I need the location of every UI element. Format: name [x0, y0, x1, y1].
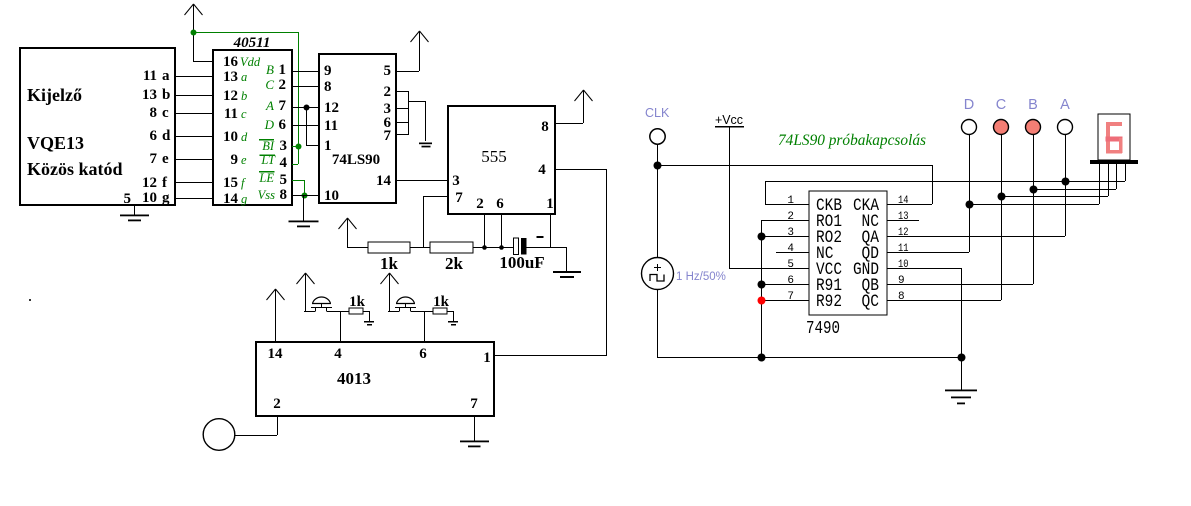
svg-text:2: 2 — [384, 84, 392, 100]
IC 4013 — [256, 342, 494, 416]
wire pin7 — [423, 196, 448, 247]
wire segment line A — [1065, 164, 1126, 182]
IC 555 — [448, 106, 555, 214]
power arrow button1 — [305, 273, 307, 311]
svg-text:b: b — [162, 87, 170, 103]
svg-text:7: 7 — [455, 190, 463, 206]
wire A vertical — [1065, 135, 1067, 236]
svg-text:Vss: Vss — [258, 188, 276, 202]
wire pin13 stub — [887, 220, 919, 222]
wire pin8 QC — [887, 300, 1001, 302]
wire source to rail — [657, 289, 659, 357]
7seg display — [1098, 114, 1130, 160]
svg-text:BI: BI — [262, 139, 275, 153]
node B junction — [1030, 186, 1038, 194]
ground under Vss — [289, 195, 319, 227]
svg-text:15: 15 — [223, 175, 238, 191]
svg-text:6: 6 — [496, 196, 504, 212]
wire pin12 QA — [887, 236, 1065, 238]
svg-text:7: 7 — [279, 98, 287, 114]
node rail reset junction — [758, 354, 766, 362]
wire ground rail — [657, 357, 961, 359]
node C junction — [998, 193, 1006, 201]
wire button1 to pin4 — [340, 311, 342, 342]
wire b — [175, 95, 213, 97]
svg-text:8: 8 — [324, 79, 332, 95]
svg-text:QC: QC — [862, 292, 880, 312]
wire segment line D — [969, 164, 1100, 205]
source 1Hz — [642, 258, 674, 290]
svg-text:B: B — [266, 62, 274, 77]
wire pin6 — [761, 284, 809, 286]
svg-text:100uF: 100uF — [499, 253, 544, 272]
ground under display — [120, 205, 149, 221]
svg-text:6: 6 — [150, 128, 158, 144]
svg-text:12: 12 — [324, 100, 339, 116]
svg-text:16: 16 — [223, 54, 239, 70]
power arrow 4013 pin14 — [275, 289, 277, 342]
svg-text:8: 8 — [898, 291, 905, 303]
7seg socket bar — [1090, 160, 1138, 164]
svg-text:13: 13 — [142, 87, 157, 103]
svg-text:3: 3 — [280, 138, 288, 154]
svg-text:11: 11 — [898, 243, 909, 255]
wire pin3 — [761, 236, 809, 238]
resistor 1k — [368, 242, 410, 253]
node QA junction — [304, 105, 310, 111]
wire pin4 stub — [776, 252, 809, 254]
wire pin8 to power — [555, 90, 584, 124]
wire B1 to pin9 — [292, 71, 319, 73]
svg-text:e: e — [162, 151, 169, 167]
svg-text:7: 7 — [787, 291, 794, 303]
wire pin1 stub — [550, 214, 552, 247]
svg-text:6: 6 — [419, 346, 427, 362]
svg-text:12: 12 — [142, 175, 157, 191]
svg-text:2: 2 — [476, 196, 484, 212]
svg-text:a: a — [162, 68, 170, 84]
svg-text:13: 13 — [223, 69, 238, 85]
svg-text:4: 4 — [787, 243, 794, 255]
svg-text:2: 2 — [279, 77, 287, 93]
node pin6 junction — [499, 245, 504, 250]
svg-text:c: c — [241, 107, 247, 121]
IC 74LS90 — [319, 54, 396, 204]
svg-text:C: C — [265, 77, 274, 92]
svg-text:11: 11 — [143, 68, 157, 84]
CLK connector circle — [650, 129, 665, 144]
wire button2 to pin6 — [424, 311, 426, 342]
svg-text:B: B — [1028, 97, 1038, 113]
svg-text:14: 14 — [898, 195, 909, 207]
wire QA to pin1 — [306, 107, 319, 146]
ground main — [945, 357, 977, 404]
svg-text:1k: 1k — [380, 254, 399, 273]
connector circle — [203, 419, 235, 451]
svg-text:5: 5 — [787, 259, 794, 271]
svg-text:6: 6 — [279, 117, 287, 133]
Vdd wire — [193, 61, 213, 63]
svg-text:5: 5 — [124, 191, 132, 207]
svg-text:+Vcc: +Vcc — [715, 112, 743, 127]
wire pin2 to connector — [235, 416, 278, 436]
svg-text:2: 2 — [787, 211, 794, 223]
wire a — [175, 76, 213, 78]
svg-text:14: 14 — [268, 346, 284, 362]
svg-text:1: 1 — [787, 195, 794, 207]
wire D vertical — [969, 135, 971, 252]
svg-text:4: 4 — [538, 162, 546, 178]
svg-text:10: 10 — [898, 259, 909, 271]
ground button2 — [447, 311, 458, 326]
svg-text:74LS90 próbakapcsolás: 74LS90 próbakapcsolás — [778, 132, 926, 149]
svg-text:40511: 40511 — [233, 35, 271, 51]
svg-text:14: 14 — [223, 191, 239, 207]
svg-text:10: 10 — [142, 190, 157, 206]
svg-text:14: 14 — [376, 173, 392, 189]
power arrow 74LS90 — [419, 31, 421, 71]
display block Kijelzo VQE13 — [20, 48, 175, 207]
green wire Vdd to BI/LT — [191, 30, 302, 165]
svg-text:4: 4 — [334, 346, 342, 362]
wire pin2 — [396, 91, 408, 93]
svg-text:c: c — [162, 105, 169, 121]
svg-text:1k: 1k — [433, 294, 450, 310]
svg-text:12: 12 — [223, 88, 238, 104]
svg-text:Vdd: Vdd — [240, 55, 261, 69]
svg-text:Közös katód: Közös katód — [27, 159, 123, 179]
wire pin9 QB — [887, 284, 1033, 286]
node CLK junction — [654, 162, 662, 170]
wire pin3 — [396, 108, 408, 110]
svg-text:VQE13: VQE13 — [27, 133, 84, 153]
resistor 1k button2 — [433, 308, 447, 314]
wire pin7 — [396, 134, 408, 136]
node rail gnd junction — [958, 354, 966, 362]
wire pin10 GND — [887, 268, 962, 357]
wire segment line C — [1001, 164, 1109, 197]
green wire LE to Vss — [292, 180, 308, 199]
wire c — [175, 113, 213, 115]
wire pin4 to 4013 pin1 — [494, 169, 607, 356]
svg-text:6: 6 — [787, 275, 794, 287]
power arrow timing — [347, 218, 349, 247]
svg-text:a: a — [241, 70, 247, 84]
svg-text:8: 8 — [150, 105, 158, 121]
svg-text:8: 8 — [541, 119, 549, 135]
svg-text:2k: 2k — [445, 254, 464, 273]
indicator B — [1026, 120, 1041, 135]
svg-text:5: 5 — [384, 63, 392, 79]
svg-text:A: A — [265, 98, 274, 113]
wire segment line B — [1033, 164, 1117, 190]
push button 2 — [388, 297, 433, 311]
power arrow Vdd — [193, 4, 195, 61]
wire pin6 — [396, 122, 408, 124]
IC 40511 — [213, 35, 292, 207]
svg-text:3: 3 — [787, 227, 794, 239]
wire C2 to pin8 — [292, 86, 319, 88]
svg-text:12: 12 — [898, 227, 909, 239]
wire pin11 QD — [887, 252, 969, 254]
+Vcc symbol — [715, 112, 809, 269]
svg-text:d: d — [162, 128, 171, 144]
svg-text:g: g — [162, 190, 170, 206]
ground 4013 pin7 — [460, 416, 489, 447]
svg-text:D: D — [964, 97, 974, 113]
svg-text:7: 7 — [150, 151, 158, 167]
wire d — [175, 136, 213, 138]
svg-text:1: 1 — [324, 138, 332, 154]
svg-text:4: 4 — [280, 155, 288, 171]
wire g — [175, 198, 213, 200]
wire CLK down — [657, 144, 659, 258]
node D junction — [966, 201, 974, 209]
svg-text:7: 7 — [470, 396, 478, 412]
indicator C — [994, 120, 1009, 135]
wire D6 to pin11 — [292, 125, 319, 127]
svg-text:CLK: CLK — [645, 106, 670, 120]
power arrow 555 — [575, 90, 593, 101]
wire pin5 to power — [396, 71, 419, 73]
svg-text:g: g — [241, 192, 247, 206]
svg-text:D: D — [264, 117, 275, 132]
svg-text:Kijelző: Kijelző — [27, 85, 82, 105]
ground cap — [553, 247, 581, 278]
ground button1 — [363, 311, 374, 326]
node pin3 junction — [758, 233, 766, 241]
svg-text:b: b — [241, 89, 247, 103]
svg-text:11: 11 — [324, 118, 338, 134]
svg-text:1k: 1k — [349, 294, 366, 310]
svg-text:1: 1 — [279, 62, 287, 78]
svg-text:1: 1 — [483, 350, 491, 366]
wire bracket 2-3-6-7 — [408, 91, 426, 141]
node pin2 junction — [482, 245, 487, 250]
svg-text:e: e — [241, 153, 247, 167]
node A junction — [1062, 178, 1070, 186]
wire CLK to CKA — [657, 165, 933, 205]
IC 7490 — [787, 191, 908, 315]
svg-text:R92: R92 — [816, 292, 842, 312]
svg-text:9: 9 — [231, 152, 239, 168]
svg-text:3: 3 — [452, 173, 460, 189]
node pin6 junction — [758, 281, 766, 289]
svg-text:5: 5 — [280, 172, 288, 188]
svg-text:LE: LE — [258, 171, 274, 185]
svg-text:8: 8 — [280, 187, 288, 203]
wire A7 to pin12 — [292, 107, 319, 109]
wire pin6 stub — [501, 214, 503, 247]
svg-text:11: 11 — [224, 106, 238, 122]
svg-text:A: A — [1060, 97, 1070, 113]
svg-text:C: C — [996, 97, 1006, 113]
svg-text:1 Hz/50%: 1 Hz/50% — [676, 271, 726, 283]
svg-text:4013: 4013 — [337, 369, 371, 388]
ground under bracket — [419, 143, 432, 148]
resistor 2k — [430, 242, 473, 253]
svg-text:74LS90: 74LS90 — [332, 152, 380, 168]
svg-text:7490: 7490 — [806, 318, 840, 339]
node pin7 junction red — [758, 297, 766, 305]
wire f — [175, 182, 213, 184]
wire pin2 stub — [484, 214, 486, 247]
resistor 1k button1 — [349, 308, 363, 314]
wire pin14 to 555 pin3 — [396, 180, 448, 182]
wire timing row — [347, 247, 567, 249]
svg-text:13: 13 — [898, 211, 909, 223]
node stray dot — [29, 299, 31, 301]
wire pin2 reset — [761, 220, 809, 357]
indicator D — [962, 120, 977, 135]
svg-text:7: 7 — [384, 128, 392, 144]
svg-text:10: 10 — [223, 129, 238, 145]
indicator A — [1058, 120, 1073, 135]
push button 1 — [304, 297, 349, 311]
wire e — [175, 159, 213, 161]
svg-text:10: 10 — [324, 188, 339, 204]
svg-text:d: d — [241, 130, 248, 144]
svg-text:1: 1 — [546, 196, 554, 212]
svg-text:9: 9 — [898, 275, 905, 287]
capacitor 100uF — [499, 236, 544, 272]
wire C vertical — [1001, 135, 1003, 300]
svg-text:2: 2 — [273, 396, 281, 412]
wire B vertical — [1033, 135, 1035, 284]
wire pin7 — [761, 300, 809, 302]
svg-text:555: 555 — [481, 147, 507, 166]
wire Vss to 74LS90 pin10 — [292, 195, 319, 197]
svg-text:9: 9 — [324, 63, 332, 79]
power arrow button2 — [389, 273, 391, 311]
wire CKB loop — [765, 181, 1065, 205]
